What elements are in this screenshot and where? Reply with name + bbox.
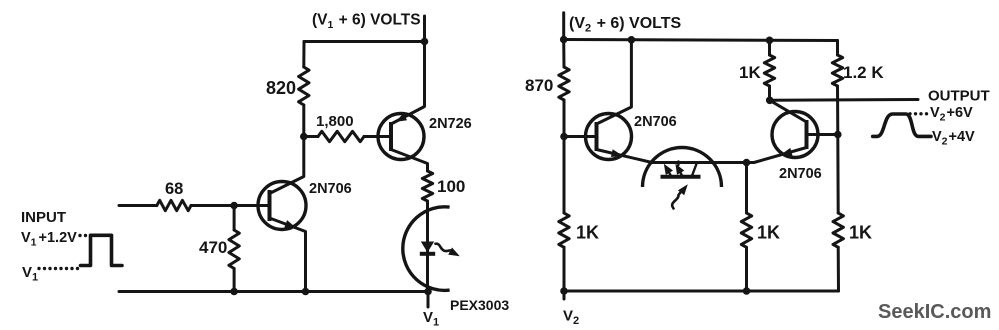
node junction 470/bottom rail	[230, 288, 238, 296]
node (V2+6) VOLTS supply stub	[562, 13, 565, 40]
wire Q3 base	[564, 135, 597, 138]
transistor Q2 2N726 circle	[378, 114, 424, 160]
wire 820 to collector node	[302, 105, 305, 137]
node junction 870/Q3 base	[560, 133, 568, 141]
svg-text:(V2 + 6) VOLTS: (V2 + 6) VOLTS	[569, 15, 682, 35]
wire top rail left circuit	[304, 40, 425, 43]
node junction rail/Q3 collector	[628, 36, 636, 44]
transistor Q4 base bar	[805, 120, 809, 149]
arrow light emission squiggle	[436, 244, 452, 251]
wire V2 stub	[563, 291, 566, 299]
svg-text:V1+1.2V: V1+1.2V	[21, 230, 77, 249]
node (V1+6) VOLTS supply stub	[423, 16, 426, 42]
node junction V2/bottom rail	[560, 287, 568, 295]
photodetector right lead	[692, 163, 697, 176]
svg-text:1.2 K: 1.2 K	[843, 63, 884, 82]
resistor R 1K bottom right	[833, 213, 843, 247]
arrow Q2 emitter PNP	[396, 113, 408, 122]
wire Q4 collector	[770, 100, 807, 122]
resistor R 100	[422, 171, 432, 201]
arrow Q3 emitter	[611, 149, 623, 157]
wire Q2 emitter to rail	[391, 42, 425, 125]
svg-text:470: 470	[199, 238, 227, 257]
wire output line	[770, 98, 918, 102]
svg-text:2N706: 2N706	[779, 166, 822, 182]
svg-text:V2: V2	[563, 308, 579, 328]
resistor R 1,800	[304, 135, 318, 138]
arrow light input squiggle	[672, 191, 681, 209]
node junction collector/1K/output	[766, 97, 774, 105]
svg-text:2N706: 2N706	[309, 181, 352, 197]
svg-text:PEX3003: PEX3003	[450, 297, 509, 313]
transistor Q3 2N706 circle	[586, 114, 632, 160]
dotted line at V1 level	[37, 267, 40, 270]
resistor R 870	[562, 40, 565, 68]
lamp PEX3003 envelope arc	[403, 207, 450, 291]
dotted line at V2+6V level	[908, 112, 911, 115]
node junction rail/1K	[766, 37, 774, 45]
transistor Q1 base bar	[268, 190, 272, 221]
transistor Q2 base bar	[389, 122, 393, 151]
resistor R 1K top	[768, 40, 771, 55]
svg-text:1,800: 1,800	[316, 113, 354, 130]
svg-text:SeekIC.com: SeekIC.com	[878, 301, 991, 323]
resistor R 68	[157, 200, 191, 210]
node junction 820/1800/collector	[300, 133, 308, 141]
photodetector bar	[661, 175, 701, 179]
wire Q4 emitter	[747, 148, 807, 163]
svg-text:1K: 1K	[576, 223, 599, 243]
svg-text:V2+4V: V2+4V	[932, 129, 975, 148]
input pulse waveform	[81, 235, 123, 265]
diode arrow in lamp	[421, 242, 434, 253]
arrow Q1 emitter	[284, 220, 296, 228]
photodetector lead arrow 1	[667, 168, 671, 176]
node junction 1K middle/bottom rail	[743, 287, 751, 295]
wire bottom rail left circuit	[119, 290, 428, 293]
svg-text:68: 68	[165, 180, 183, 198]
wire Q3 emitter	[597, 150, 747, 163]
svg-text:1K: 1K	[849, 223, 872, 243]
wire input line	[119, 204, 157, 207]
resistor R 820	[299, 67, 309, 105]
wire 1K right to bottom	[836, 135, 839, 214]
transistor Q4 2N706 circle	[772, 112, 818, 158]
node junction emitter wire / 1K middle	[743, 159, 751, 167]
node junction Q4 base/1.2K/1K	[834, 131, 842, 139]
wire top rail right circuit	[564, 40, 838, 41]
svg-text:100: 100	[437, 177, 465, 196]
resistor R 1K middle	[745, 163, 748, 214]
node junction top rail / 2N726 emitter	[421, 38, 429, 46]
node junction lamp/bottom rail	[424, 288, 432, 296]
wire bottom rail right circuit	[564, 290, 839, 293]
wire Q1 collector	[270, 137, 304, 194]
svg-text:V1: V1	[22, 264, 38, 284]
arrow Q4 emitter	[781, 148, 793, 156]
output pulse waveform	[873, 114, 931, 136]
resistor R 1K bottom left	[563, 137, 566, 214]
node junction Q1 emitter/bottom rail	[302, 288, 310, 296]
transistor Q1 2N706 circle	[258, 182, 306, 230]
svg-text:(V1 + 6) VOLTS: (V1 + 6) VOLTS	[312, 12, 421, 32]
transistor Q3 base bar	[595, 122, 599, 151]
wire Q2 collector	[391, 150, 428, 172]
wire V1 stub	[427, 292, 430, 308]
wire 100 to lamp / bottom	[426, 201, 429, 292]
dotted line at V1+1.2V level	[78, 234, 81, 237]
wire from top rail down to 820	[302, 42, 305, 68]
resistor R 470	[233, 206, 236, 231]
svg-text:V1: V1	[423, 309, 439, 329]
svg-text:1K: 1K	[757, 223, 780, 243]
resistor R 1.2K	[836, 41, 839, 56]
wire Q1 base	[234, 204, 269, 207]
svg-text:2N726: 2N726	[429, 116, 472, 132]
svg-text:820: 820	[266, 78, 296, 98]
svg-text:1K: 1K	[739, 63, 761, 82]
photodetector dome arc	[643, 148, 722, 188]
wire Q3 collector	[597, 40, 632, 124]
wire Q4 base	[807, 133, 838, 136]
node junction input/470/base	[230, 202, 238, 210]
photodetector lead arrow 2	[678, 168, 682, 176]
svg-text:870: 870	[525, 76, 553, 95]
svg-text:INPUT: INPUT	[21, 209, 66, 226]
svg-text:V2+6V: V2+6V	[930, 105, 973, 124]
node junction supply/870	[560, 36, 568, 44]
svg-text:2N706: 2N706	[634, 114, 677, 130]
svg-text:OUTPUT: OUTPUT	[928, 88, 990, 105]
wire Q1 emitter	[270, 218, 306, 292]
